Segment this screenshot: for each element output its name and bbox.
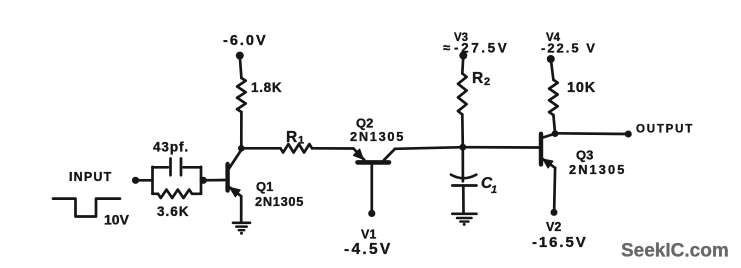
resistor 1.8K: [237, 78, 246, 112]
svg-text:-4.5V: -4.5V: [344, 241, 393, 258]
node: R2 / C1 junction: [459, 144, 466, 151]
svg-text:1: 1: [491, 184, 497, 196]
wire R2 to node: [461, 115, 464, 148]
svg-text:Q3: Q3: [576, 148, 593, 163]
ground (Q1 emitter): [233, 222, 250, 225]
wire Q3 emitter to V2: [553, 168, 557, 209]
svg-text:3.6K: 3.6K: [157, 204, 190, 219]
capacitor 43pf: [169, 159, 172, 176]
wire top branch left: [153, 166, 169, 169]
wire V3 to R2: [462, 56, 463, 74]
node: Q3 collector junction: [552, 130, 559, 137]
node: RC output junction: [200, 177, 207, 184]
resistor R1: [281, 144, 313, 152]
wire node to R1: [241, 147, 280, 150]
terminal V2: [551, 209, 558, 216]
RC network left junction bar: [151, 167, 154, 194]
wire -6.0V to 1.8K: [240, 56, 242, 78]
resistor R2: [458, 74, 467, 115]
wire R1 to Q2 emitter: [312, 147, 354, 150]
wire Q1 emitter to ground: [240, 196, 243, 222]
svg-text:SeekIC.com: SeekIC.com: [621, 241, 729, 262]
wire top branch right: [184, 166, 202, 169]
svg-text:2N1305: 2N1305: [255, 194, 304, 209]
resistor 3.6K: [153, 192, 159, 195]
capacitor C1: [451, 175, 476, 179]
svg-text:43pf.: 43pf.: [153, 140, 189, 155]
svg-text:2N1305: 2N1305: [569, 162, 626, 177]
svg-text:-22.5 V: -22.5 V: [541, 41, 597, 56]
wire Q2 collector to R2 node: [395, 147, 463, 149]
svg-text:2: 2: [484, 76, 490, 88]
terminal V1: [368, 210, 375, 217]
wire node to C1: [461, 147, 464, 181]
svg-text:INPUT: INPUT: [69, 170, 113, 184]
svg-text:1.8K: 1.8K: [251, 80, 282, 95]
transistor Q3: [539, 134, 543, 165]
svg-text:OUTPUT: OUTPUT: [636, 124, 694, 136]
svg-text:-6.0V: -6.0V: [223, 33, 268, 49]
wire input to RC network: [136, 179, 153, 182]
svg-text:1: 1: [298, 135, 304, 147]
svg-text:10K: 10K: [567, 80, 596, 96]
wire 1.8K to collector node: [240, 112, 243, 148]
svg-text:R: R: [286, 129, 297, 146]
wire 10K to collector node: [553, 115, 555, 134]
transistor Q1: [225, 164, 229, 191]
transistor Q2: [354, 149, 365, 161]
svg-text:≈: ≈: [443, 40, 450, 55]
wire node to Q3 base: [463, 146, 539, 149]
node: Q1 collector junction: [238, 145, 245, 152]
svg-text:V1: V1: [361, 228, 376, 242]
RC network right junction bar: [200, 167, 203, 194]
svg-text:10V: 10V: [104, 212, 130, 228]
wire V4 to 10K: [551, 59, 554, 80]
svg-text:-16.5V: -16.5V: [532, 234, 588, 251]
wire to output: [555, 132, 628, 135]
svg-text:2N1305: 2N1305: [350, 129, 405, 144]
output terminal: [625, 131, 632, 138]
ground (below C1): [452, 213, 476, 216]
wire RC to Q1 base: [203, 179, 225, 182]
node: input junction: [132, 177, 139, 184]
resistor 10K: [549, 80, 558, 115]
svg-text:R: R: [472, 70, 483, 87]
wire C1 to ground: [462, 186, 465, 214]
input pulse waveform: [53, 199, 120, 217]
svg-text:Q1: Q1: [256, 179, 273, 194]
svg-text:V2: V2: [546, 220, 561, 234]
